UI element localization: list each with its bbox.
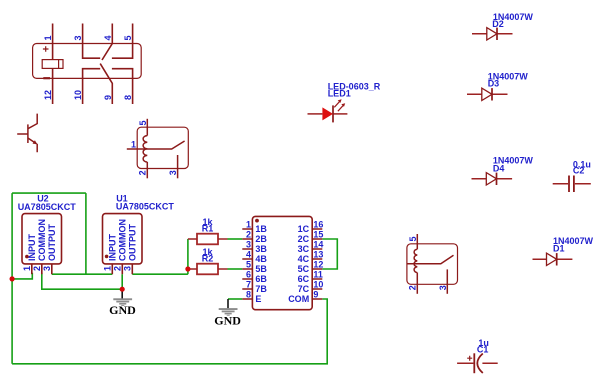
svg-text:5: 5 <box>123 35 133 40</box>
svg-text:7C: 7C <box>298 284 310 294</box>
svg-text:INPUT: INPUT <box>108 233 118 261</box>
svg-text:D1: D1 <box>553 243 565 253</box>
svg-text:OUTPUT: OUTPUT <box>47 224 57 262</box>
svg-text:GND: GND <box>109 303 136 317</box>
svg-text:3: 3 <box>246 239 251 249</box>
svg-text:LED1: LED1 <box>328 89 351 99</box>
svg-text:6C: 6C <box>298 274 310 284</box>
svg-text:OUTPUT: OUTPUT <box>128 224 138 262</box>
svg-text:3: 3 <box>168 170 178 175</box>
svg-text:R1: R1 <box>202 224 214 234</box>
svg-text:1B: 1B <box>255 224 267 234</box>
svg-text:7: 7 <box>246 279 251 289</box>
svg-text:3: 3 <box>73 35 83 40</box>
svg-text:16: 16 <box>313 219 323 229</box>
svg-text:1C: 1C <box>298 224 310 234</box>
svg-text:8: 8 <box>123 95 133 100</box>
svg-text:INPUT: INPUT <box>27 233 37 261</box>
svg-text:4: 4 <box>103 35 113 40</box>
svg-text:4: 4 <box>246 249 251 259</box>
svg-text:R2: R2 <box>202 254 214 264</box>
svg-text:3: 3 <box>123 266 133 271</box>
svg-text:2B: 2B <box>255 234 267 244</box>
svg-text:1: 1 <box>22 266 32 271</box>
svg-text:GND: GND <box>214 314 241 328</box>
svg-text:2: 2 <box>113 266 123 271</box>
svg-text:5: 5 <box>408 236 418 241</box>
svg-text:D3: D3 <box>488 79 500 89</box>
svg-text:12: 12 <box>43 90 53 100</box>
svg-text:1: 1 <box>131 139 136 149</box>
svg-text:2C: 2C <box>298 234 310 244</box>
svg-text:5: 5 <box>246 259 251 269</box>
svg-text:COMMON: COMMON <box>37 219 47 261</box>
svg-text:4B: 4B <box>255 254 267 264</box>
svg-text:2: 2 <box>32 266 42 271</box>
svg-text:7B: 7B <box>255 284 267 294</box>
svg-text:6: 6 <box>246 269 251 279</box>
svg-text:10: 10 <box>313 279 323 289</box>
svg-text:10: 10 <box>73 90 83 100</box>
svg-text:1: 1 <box>246 219 251 229</box>
svg-text:1: 1 <box>103 266 113 271</box>
svg-text:3: 3 <box>438 285 448 290</box>
svg-text:5C: 5C <box>298 264 310 274</box>
svg-text:COM: COM <box>288 294 309 304</box>
svg-text:5: 5 <box>138 120 148 125</box>
svg-text:UA7805CKCT: UA7805CKCT <box>116 201 175 211</box>
svg-text:3C: 3C <box>298 244 310 254</box>
svg-text:D4: D4 <box>493 164 505 174</box>
svg-text:9: 9 <box>103 95 113 100</box>
svg-text:5B: 5B <box>255 264 267 274</box>
svg-text:COMMON: COMMON <box>118 219 128 261</box>
svg-text:2: 2 <box>246 229 251 239</box>
svg-text:UA7805CKCT: UA7805CKCT <box>18 202 77 212</box>
svg-text:9: 9 <box>313 289 318 299</box>
svg-text:3: 3 <box>42 266 52 271</box>
svg-text:C1: C1 <box>477 344 489 354</box>
svg-text:D2: D2 <box>492 19 504 29</box>
svg-text:15: 15 <box>313 229 323 239</box>
svg-text:1: 1 <box>43 35 53 40</box>
svg-text:3B: 3B <box>255 244 267 254</box>
svg-text:C2: C2 <box>573 165 585 175</box>
svg-text:8: 8 <box>246 289 251 299</box>
svg-text:E: E <box>255 294 261 304</box>
svg-text:6B: 6B <box>255 274 267 284</box>
svg-text:13: 13 <box>313 249 323 259</box>
svg-text:12: 12 <box>313 259 323 269</box>
svg-text:2: 2 <box>138 170 148 175</box>
svg-text:4C: 4C <box>298 254 310 264</box>
svg-text:14: 14 <box>313 239 323 249</box>
svg-text:11: 11 <box>313 269 323 279</box>
svg-text:2: 2 <box>407 285 417 290</box>
